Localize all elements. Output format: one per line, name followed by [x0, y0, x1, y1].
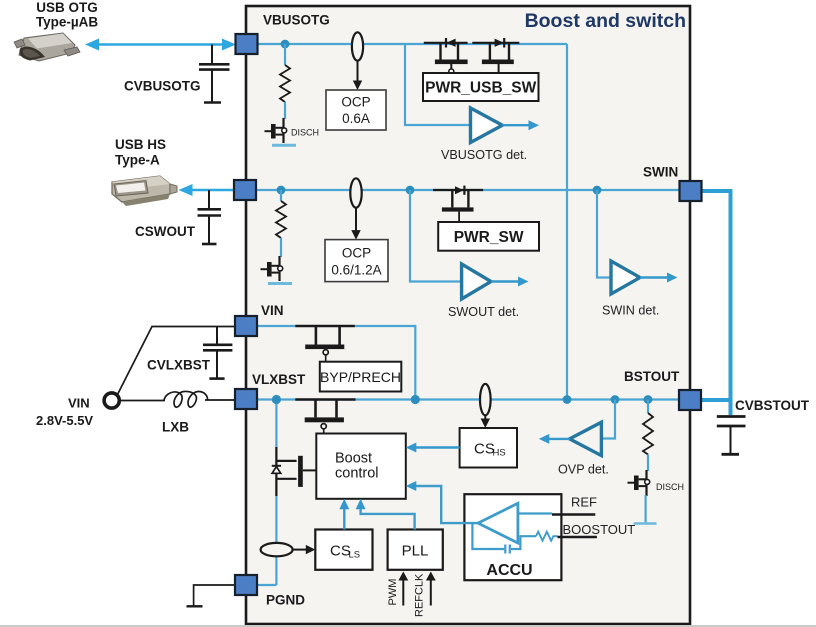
transistor BYP switch — [295, 326, 354, 362]
box PWR_SW — [438, 222, 539, 251]
box PLL — [388, 530, 443, 570]
svg-text:CVBSTOUT: CVBSTOUT — [735, 398, 810, 413]
wire PGND external with ground — [194, 585, 235, 606]
svg-text:VLXBST: VLXBST — [252, 372, 306, 387]
node row4 c — [563, 395, 572, 404]
box CS_LS — [315, 530, 372, 570]
capacitor CVBUSOTG — [199, 45, 230, 103]
signal REF line — [552, 513, 595, 516]
arrow ellipse to OCP box row2 — [355, 208, 357, 233]
transistor low-side FET with body diode — [272, 447, 317, 496]
node row4 d — [611, 395, 620, 404]
current sensor ellipse CS_LS (horizontal) — [261, 543, 293, 556]
svg-text:Type-A: Type-A — [115, 153, 160, 168]
svg-text:HS: HS — [493, 448, 506, 459]
svg-text:OCP: OCP — [342, 246, 371, 261]
wire SWIN det. input elbow — [597, 190, 611, 278]
connector USB OTG micro-AB — [14, 33, 80, 61]
arrow OVP det. output — [547, 438, 570, 440]
capacitor CVBSTOUT — [717, 400, 746, 454]
svg-text:Boost: Boost — [335, 451, 372, 467]
svg-text:OCP: OCP — [341, 95, 370, 110]
node row1 — [281, 40, 290, 49]
wire vertical long x=567 from row1 to BSTOUT row — [566, 44, 568, 400]
ground (blue bar) row2 — [268, 282, 292, 285]
bottom page rule — [0, 625, 816, 627]
op-amp U-ACCU (points left) — [478, 503, 518, 543]
node row4 a — [272, 395, 281, 404]
wire feedback loop with capacitor — [511, 536, 520, 549]
current sensor ellipse row2 — [350, 178, 361, 207]
node row4 b — [411, 395, 420, 404]
ground PGND external — [187, 605, 203, 607]
arrow REFCLK input — [430, 579, 432, 606]
wire VBUSOTG row (internal) — [256, 43, 567, 45]
arrow ACCU output into Boost control — [406, 481, 417, 491]
pin PGND — [235, 575, 257, 595]
transistor pair PWR_USB_SW : right FET — [472, 38, 519, 73]
svg-text:PLL: PLL — [402, 543, 429, 560]
arrow PWM input — [402, 579, 404, 606]
svg-text:SWIN det.: SWIN det. — [602, 304, 659, 318]
resistor row1 discharge — [280, 65, 290, 102]
svg-text:control: control — [335, 466, 379, 482]
arrow SWOUT det. output — [491, 280, 521, 282]
current sensor ellipse CS_HS — [480, 384, 491, 415]
node row4 e — [644, 395, 653, 404]
wire op-amp - input — [520, 535, 537, 537]
pin SWIN — [680, 181, 702, 201]
svg-text:DISCH: DISCH — [656, 482, 684, 492]
wire op-amp output to Boost control (elbow) — [414, 486, 478, 523]
wire op-amp + input to REF — [518, 512, 552, 514]
svg-text:PWR_SW: PWR_SW — [454, 229, 524, 246]
arrow wire VBUSOTG external (double-headed) — [94, 43, 228, 46]
svg-text:0.6/1.2A: 0.6/1.2A — [331, 263, 381, 278]
svg-text:BYP/PRECH: BYP/PRECH — [320, 369, 401, 385]
arrow ellipse to CS_LS box — [293, 549, 309, 551]
node row2 a — [277, 186, 286, 195]
arrow ellipse to OCP box — [357, 61, 359, 83]
wire stub node to resistor row2 — [280, 190, 282, 201]
transistor pair PWR_USB_SW : left FET — [424, 38, 468, 74]
capacitor CVLXBST — [203, 327, 232, 379]
wire VIN elbow down to VLXBST row — [354, 326, 415, 400]
wire VBUSOTG det. input elbow — [405, 44, 470, 125]
svg-text:USB OTG: USB OTG — [36, 0, 98, 15]
arrow PLL into Boost control — [356, 499, 366, 510]
comparator VBUSOTG det. — [471, 108, 503, 143]
svg-text:2.8V-5.5V: 2.8V-5.5V — [36, 413, 93, 428]
capacitor CSWOUT — [198, 190, 222, 244]
pin VIN — [235, 316, 257, 336]
transistor boost NMOS — [295, 400, 355, 434]
box CS_HS — [460, 428, 517, 468]
node row2 c — [593, 186, 602, 195]
svg-text:VBUSOTG: VBUSOTG — [263, 13, 330, 28]
node row2 b — [406, 186, 415, 195]
wire resistor to DISCH row2 — [280, 238, 282, 257]
wire thick SWIN to BSTOUT right side — [700, 191, 731, 400]
svg-text:CVLXBST: CVLXBST — [147, 358, 211, 373]
wire stub node to resistor row4 — [647, 400, 649, 414]
svg-text:REFCLK: REFCLK — [414, 573, 426, 617]
ground (blue bar) row1 — [272, 144, 296, 147]
arrow VBUSOTG det. output — [502, 124, 531, 126]
box OCP 0.6/1.2A — [325, 240, 388, 282]
wire DISCH down to bar — [644, 495, 646, 524]
resistor feedback (blue squiggle) to BOOSTOUT — [536, 532, 558, 541]
box OCP 0.6A — [326, 90, 386, 130]
wire PGND stub — [256, 584, 276, 586]
svg-text:OVP det.: OVP det. — [558, 463, 609, 477]
wire VLXBST-BSTOUT row — [256, 398, 679, 400]
svg-text:PWM: PWM — [387, 579, 399, 606]
wire VIN circle to inductor — [119, 400, 165, 402]
connector USB HS Type-A — [112, 176, 177, 206]
wire stub node to resistor — [284, 44, 286, 65]
arrow CS_LS to Boost control — [343, 505, 345, 530]
svg-text:Boost and switch: Boost and switch — [525, 10, 686, 32]
arrow wire SWOUT external — [187, 189, 234, 192]
arrow SWIN det. output — [640, 276, 670, 278]
svg-text:PGND: PGND — [266, 593, 305, 608]
wire vertical VLXBST to PGND — [275, 400, 277, 586]
transistor DISCH BSTOUT — [628, 470, 650, 496]
svg-text:0.6A: 0.6A — [342, 111, 370, 126]
svg-text:Type-µAB: Type-µAB — [36, 15, 99, 30]
wire OVP det. input elbow — [601, 400, 615, 439]
resistor row2 discharge — [276, 201, 286, 238]
comparator SWIN det. — [611, 261, 640, 294]
box PWR_USB_SW — [423, 73, 539, 101]
svg-text:DISCH: DISCH — [291, 128, 319, 138]
svg-text:ACCU: ACCU — [486, 562, 532, 579]
pin BSTOUT — [679, 390, 701, 410]
capacitor feedback — [509, 545, 511, 554]
current sensor ellipse row1 — [352, 32, 363, 60]
svg-text:VBUSOTG det.: VBUSOTG det. — [441, 148, 527, 162]
transistor DISCH row2 — [261, 256, 283, 281]
pin SWOUT — [234, 180, 256, 200]
wire resistor to DISCH — [284, 102, 286, 119]
svg-text:LXB: LXB — [162, 420, 189, 435]
IC boundary box — [246, 6, 690, 624]
box BYP/PRECH — [320, 362, 402, 392]
resistor BSTOUT discharge — [643, 413, 653, 455]
svg-text:BSTOUT: BSTOUT — [624, 369, 680, 384]
wire diagonal VIN to CVLXBST rail — [118, 327, 236, 395]
comparator OVP det. (points left) — [570, 422, 602, 455]
svg-text:REF: REF — [571, 495, 597, 510]
svg-text:SWIN: SWIN — [643, 165, 678, 180]
transistor PWR_SW — [433, 186, 483, 222]
svg-text:CVBUSOTG: CVBUSOTG — [124, 79, 201, 94]
arrow CS_HS to Boost control — [414, 446, 460, 448]
svg-text:VIN: VIN — [261, 303, 284, 318]
transistor DISCH row1 — [265, 118, 287, 143]
wire PLL to Boost control elbow — [361, 505, 415, 530]
pin VBUSOTG — [236, 34, 258, 54]
ground (blue bar) BSTOUT — [634, 522, 657, 525]
wire SWOUT det. input elbow — [410, 190, 462, 282]
svg-text:SWOUT det.: SWOUT det. — [448, 305, 519, 319]
svg-text:CSWOUT: CSWOUT — [135, 224, 196, 239]
wire VIN internal — [256, 325, 296, 327]
signal BOOSTOUT line — [558, 536, 597, 539]
wire SWOUT row — [256, 189, 680, 191]
inductor LXB — [164, 391, 208, 407]
box ACCU — [464, 494, 561, 580]
wire resistor to DISCH row4 — [647, 455, 649, 472]
svg-text:BOOSTOUT: BOOSTOUT — [563, 522, 636, 537]
arrow ellipse to CS_HS box — [484, 415, 486, 421]
comparator SWOUT det. — [462, 264, 491, 299]
wire inductor to VLXBST pin — [205, 399, 235, 401]
box Boost control — [316, 434, 406, 499]
pin VLXBST — [235, 389, 257, 409]
svg-text:USB HS: USB HS — [115, 137, 166, 152]
svg-text:VIN: VIN — [68, 396, 90, 411]
terminal VIN circle — [104, 393, 119, 408]
svg-text:PWR_USB_SW: PWR_USB_SW — [425, 80, 536, 97]
svg-text:LS: LS — [349, 550, 361, 561]
